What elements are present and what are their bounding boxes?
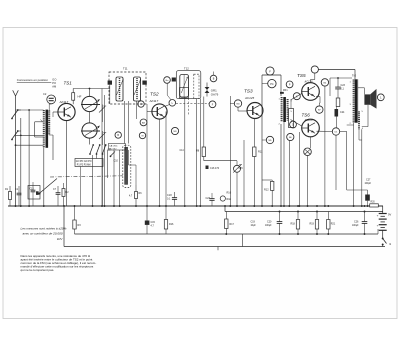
- junction dots bus1b: [279, 211, 281, 213]
- resistor R6: [135, 192, 138, 199]
- mechanical link line: [50, 176, 123, 177]
- switch contact ant PO: [12, 132, 18, 140]
- wire input horizontals: [16, 109, 44, 111]
- wire M3 vertical: [165, 112, 167, 207]
- wire TS1 top to IF can: [73, 88, 110, 90]
- wire T11 downleads: [124, 101, 126, 144]
- output transformer Tr2 core: [355, 79, 358, 122]
- terminal B: [115, 132, 121, 138]
- terminal F2: [209, 101, 216, 108]
- svg-text:100µF: 100µF: [365, 183, 372, 185]
- electrolytic C27: [365, 195, 370, 201]
- osc transformer T1 core: [46, 110, 49, 148]
- svg-text:MF1: MF1: [283, 90, 288, 92]
- stub on bus3: [217, 247, 219, 251]
- resistor 470 blob: [206, 166, 209, 170]
- terminal P4: [268, 79, 276, 87]
- antenna: [15, 96, 17, 206]
- wire TS3 base: [237, 107, 239, 111]
- wire left of TS3: [229, 96, 231, 206]
- svg-text:C19: C19: [251, 221, 256, 224]
- svg-text:AC125: AC125: [244, 96, 255, 100]
- terminal B9 lamp: [304, 148, 312, 156]
- osc transformer T1 primary: [43, 110, 45, 148]
- T12 sec dashed: [194, 74, 199, 99]
- output transformer Tr2 secondary: [358, 111, 360, 129]
- svg-text:TS6: TS6: [302, 113, 311, 118]
- terminal M4: [234, 100, 241, 107]
- terminal F3: [266, 67, 274, 75]
- svg-text:GO: GO: [52, 78, 56, 82]
- svg-text:C26: C26: [354, 221, 359, 224]
- transistor TS3: [247, 103, 263, 119]
- IF transformer T12 shield: [176, 71, 201, 99]
- capacitor C18: [172, 197, 177, 199]
- svg-text:R18: R18: [291, 223, 296, 226]
- resistor R13b: [289, 109, 294, 128]
- osc transformer T1 secondary: [48, 111, 50, 136]
- wire TS6 collector right: [317, 130, 333, 132]
- svg-text:100µF: 100µF: [265, 225, 272, 227]
- T11 cap A: [108, 81, 112, 85]
- trimmer arrow CT1: [99, 107, 105, 113]
- wire TS6 base diag: [291, 120, 302, 127]
- wire TS5 emitter: [316, 96, 320, 98]
- wire T12 downleads: [184, 97, 186, 206]
- svg-text:T12: T12: [184, 67, 189, 71]
- dashed link lines: [176, 103, 210, 105]
- svg-text:9V: 9V: [388, 213, 391, 217]
- trimmer C3 box: [28, 186, 40, 200]
- speaker terminal 1: [377, 94, 384, 101]
- wire input vertical x29: [28, 110, 30, 206]
- resistor R19: [315, 220, 318, 230]
- wire input vertical x21: [20, 118, 22, 206]
- svg-text:Ω/V: Ω/V: [57, 237, 63, 241]
- terminal O: [311, 66, 318, 73]
- T12 cap in: [172, 78, 176, 82]
- svg-text:OA79: OA79: [211, 92, 219, 96]
- variable capacitor CV1: [82, 96, 97, 111]
- wire C27 link: [347, 189, 368, 191]
- svg-text:Tr2: Tr2: [352, 74, 357, 78]
- wire Tr2 bottom: [353, 123, 355, 206]
- svg-text:C2: C2: [43, 92, 47, 96]
- svg-text:TS1: TS1: [64, 81, 73, 86]
- wire secondary bus y211.5: [225, 211, 383, 213]
- transistor TS6: [302, 119, 320, 137]
- driver transformer Tr1 core: [283, 97, 286, 122]
- svg-text:HF: HF: [78, 95, 82, 99]
- variable capacitor CV2: [82, 123, 97, 138]
- terminal L: [169, 100, 176, 107]
- svg-text:PO GO: PO GO: [109, 148, 116, 150]
- svg-text:qui ne la comportent pas.: qui ne la comportent pas.: [21, 268, 55, 272]
- trimmer cap C16: [234, 165, 241, 172]
- capacitor C1: [17, 192, 22, 194]
- TS3 collector box right rail: [280, 75, 282, 96]
- trimmer arrow CT2: [99, 133, 105, 139]
- terminal M2: [139, 132, 145, 138]
- svg-text:M: M: [142, 136, 144, 138]
- resistor R21: [327, 220, 330, 230]
- terminal B7: [316, 106, 323, 113]
- TS3 collector box top: [262, 74, 281, 76]
- resistor R3 bias: [73, 220, 76, 229]
- svg-text:C15: C15: [239, 168, 244, 170]
- wire T11 region verticals: [113, 150, 115, 206]
- svg-text:AM: AM: [52, 85, 56, 89]
- terminal B4: [321, 79, 328, 86]
- wire right top rail: [330, 77, 352, 79]
- terminal D: [290, 121, 297, 128]
- terminal B2: [210, 75, 217, 82]
- svg-text:R18: R18: [227, 198, 232, 201]
- svg-text:GO PO GO PO: GO PO GO PO: [76, 161, 92, 163]
- wire TS1 emitter down: [66, 121, 68, 206]
- svg-text:T11: T11: [123, 67, 128, 71]
- capacitor C7: [56, 192, 61, 194]
- resistor R1: [9, 192, 12, 200]
- wire TS6 emitter down: [310, 137, 312, 148]
- svg-text:100µF: 100µF: [352, 225, 359, 227]
- terminal Q6: [293, 93, 300, 100]
- dashed CAF box: [180, 88, 189, 99]
- resistor R16: [164, 220, 167, 230]
- capacitor C15: [145, 221, 150, 225]
- resistor R15b: [336, 98, 340, 107]
- trimmer C2 circle: [47, 95, 56, 104]
- resistor R12: [271, 181, 274, 190]
- svg-text:C27: C27: [366, 179, 371, 182]
- switch I1: [382, 238, 384, 240]
- wire bus2 y234: [75, 233, 379, 235]
- terminal D1: [332, 128, 339, 135]
- switch contact S2c: [103, 146, 106, 154]
- electrolytic C24: [335, 109, 339, 117]
- transistor TS5: [302, 83, 320, 101]
- svg-text:R12: R12: [264, 189, 269, 192]
- svg-text:R20: R20: [371, 202, 376, 204]
- junction dots bus1: [15, 205, 17, 207]
- svg-text:PO: PO: [52, 81, 56, 85]
- TS3 collector box left rail: [261, 75, 263, 206]
- wire Tr2 to speaker: [357, 87, 364, 89]
- svg-text:R21: R21: [331, 223, 336, 226]
- wire T1 bottom: [43, 148, 45, 207]
- svg-text:R17: R17: [230, 223, 235, 226]
- wire TS5 base diag: [291, 94, 302, 101]
- wire R8 to right: [204, 160, 237, 162]
- svg-text:avec un contrôleur de 20.000: avec un contrôleur de 20.000: [23, 232, 63, 236]
- wire bus3 y246.5: [64, 246, 385, 248]
- wire under Tr1: [283, 122, 285, 206]
- wire TS3 emitter down: [253, 119, 255, 148]
- transistor TS1: [58, 103, 75, 120]
- junction dots bus2: [225, 233, 227, 235]
- switch lever: [38, 179, 57, 195]
- svg-text:AF117: AF117: [59, 100, 69, 104]
- svg-text:+: +: [377, 224, 379, 228]
- wire bus2-bus3 link: [241, 234, 243, 247]
- wire CV1 leads: [89, 89, 91, 97]
- svg-text:Connexions en position: Connexions en position: [17, 78, 49, 82]
- Tr1 top blob: [280, 92, 284, 94]
- wire bus2 right end: [377, 229, 379, 234]
- switch label strip: [75, 159, 103, 167]
- svg-text:C16 470: C16 470: [210, 167, 220, 170]
- svg-text:Les mesures sont notées à ±20%: Les mesures sont notées à ±20%: [21, 227, 67, 231]
- text strip under T11: [108, 144, 125, 151]
- resistor R18: [296, 220, 299, 230]
- resistor R20 series: [370, 204, 379, 207]
- wire can1 link: [101, 89, 103, 105]
- switch contact S3: [111, 152, 116, 157]
- diode GR1 OA79: [205, 87, 210, 90]
- T11 coil A: [116, 77, 123, 101]
- T11 cap B: [142, 81, 146, 85]
- terminal B6: [287, 133, 294, 140]
- svg-text:AF117: AF117: [149, 99, 159, 103]
- capacitor C23: [335, 86, 341, 88]
- svg-text:C24: C24: [340, 111, 345, 114]
- svg-text:R10: R10: [227, 192, 232, 195]
- driver transformer Tr1 primary: [281, 97, 283, 122]
- wire TS2 emitter down: [159, 119, 161, 206]
- switch contact S2b: [97, 146, 100, 154]
- terminal M5: [266, 136, 273, 143]
- wire TS2 collector: [165, 105, 170, 107]
- switch contact ant GO: [12, 111, 18, 119]
- T11 coil B: [134, 77, 141, 101]
- svg-text:C13: C13: [30, 189, 35, 191]
- svg-text:10µF: 10µF: [251, 225, 257, 227]
- wire TS2 base left: [147, 111, 152, 113]
- resistor R8: [202, 147, 205, 157]
- terminal R18c: [220, 196, 225, 201]
- svg-text:TS3: TS3: [244, 89, 253, 94]
- output transformer Tr2 primary: [353, 80, 355, 123]
- svg-text:+: +: [377, 214, 379, 218]
- terminal E: [138, 101, 144, 107]
- svg-text:C20: C20: [267, 221, 272, 224]
- switch contact S2a: [90, 146, 93, 154]
- terminal P5: [286, 81, 293, 88]
- svg-text:CA OSC: CA OSC: [109, 145, 118, 148]
- terminal AB: [140, 119, 147, 126]
- coupling loop rect: [35, 121, 44, 123]
- speaker: [364, 94, 370, 104]
- svg-text:R19: R19: [310, 223, 315, 226]
- wire TS5 collector top: [310, 80, 312, 83]
- IF transformer T11 shield: [109, 72, 146, 104]
- band switch bar: [125, 147, 128, 184]
- svg-text:TS5: TS5: [297, 73, 306, 78]
- band switch dashed box: [123, 145, 131, 187]
- transistor TS2: [152, 104, 167, 119]
- terminal M3: [171, 127, 178, 134]
- T12 coil: [180, 75, 189, 98]
- svg-text:P1 P2 P3 AM: P1 P2 P3 AM: [77, 164, 91, 167]
- wire B4 down: [324, 86, 326, 206]
- resistor R11: [253, 147, 256, 157]
- resistor R2: [62, 189, 65, 197]
- resistor R17: [225, 219, 228, 229]
- HF choke: [72, 93, 75, 101]
- driver transformer Tr1 secondary: [287, 99, 289, 121]
- terminal Ba: [164, 77, 171, 84]
- svg-text:TS2: TS2: [150, 92, 159, 97]
- svg-text:C14: C14: [180, 150, 185, 152]
- svg-text:R16: R16: [169, 223, 174, 226]
- battery 9V: [379, 213, 387, 215]
- wire top rail to Tr2: [318, 69, 355, 71]
- wire TS1 base: [53, 111, 58, 113]
- svg-text:P4: P4: [270, 82, 274, 86]
- wire main bus y206: [8, 205, 383, 207]
- wire CV2 leads: [89, 138, 91, 144]
- wire T1 secondary leads: [49, 134, 53, 136]
